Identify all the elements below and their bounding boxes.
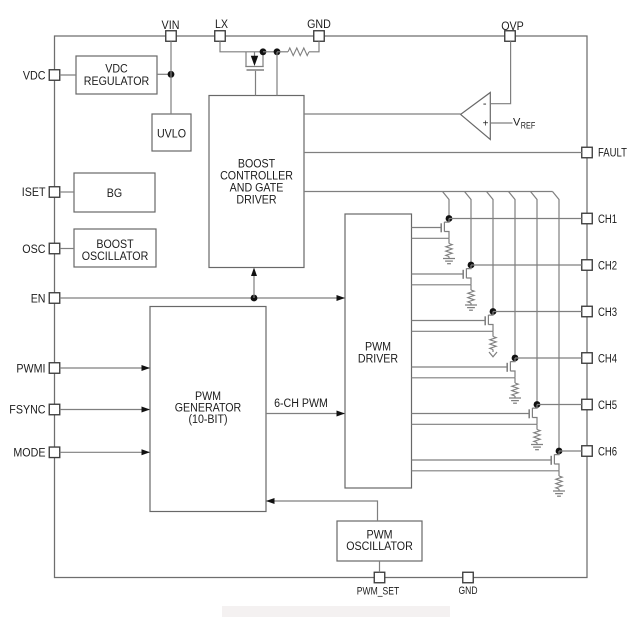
arrowhead EN into PWM driver — [337, 295, 346, 301]
wire OVP pin down to comparator inverting input — [491, 41, 511, 103]
wire source to resistor R6 — [558, 471, 560, 476]
wire source to resistor R2 — [470, 285, 472, 290]
svg-text:EN: EN — [31, 294, 46, 306]
pin EN — [31, 293, 60, 306]
outer chip boundary — [55, 36, 588, 578]
wire gate drive to Q6 — [412, 459, 552, 461]
block PWM OSCILLATOR — [337, 521, 422, 561]
wire EN to PWM driver — [60, 297, 345, 299]
svg-text:REGULATOR: REGULATOR — [84, 74, 149, 88]
ground CH2 — [465, 303, 477, 310]
block UVLO — [152, 114, 191, 151]
pin CH6 — [582, 446, 617, 459]
node CH6 dot — [556, 448, 563, 455]
svg-text:CH2: CH2 — [598, 261, 617, 273]
wire PWMI to PWM generator — [60, 365, 150, 371]
svg-text:VDC: VDC — [23, 71, 46, 83]
svg-text:CH6: CH6 — [598, 447, 617, 459]
svg-text:CH5: CH5 — [598, 400, 617, 412]
node CH5 dot — [534, 401, 541, 408]
wire bus branch to CH2 — [465, 192, 472, 266]
wire bus branch to CH3 — [487, 192, 494, 312]
wire resistor to GND pin — [309, 41, 319, 52]
svg-text:DRIVER: DRIVER — [358, 352, 398, 366]
node CH3 dot — [490, 308, 497, 315]
pin LX — [215, 19, 229, 41]
wire PWM oscillator to PWM generator — [266, 501, 378, 521]
svg-text:CH3: CH3 — [598, 307, 617, 319]
svg-text:LX: LX — [215, 19, 228, 31]
pin CH4 — [582, 353, 618, 366]
wire current sense CH4 to PWM driver — [412, 377, 516, 379]
svg-text:OSCILLATOR: OSCILLATOR — [346, 539, 413, 553]
svg-text:ISET: ISET — [22, 187, 46, 199]
node CH2 dot — [468, 262, 475, 269]
wire gate drive to Q4 — [412, 366, 508, 368]
transistor Q7 boost switch — [245, 52, 264, 96]
transistor Q5 channel switch — [529, 405, 537, 425]
wire VDC pin to VDC REGULATOR — [60, 74, 76, 76]
pin ISET — [22, 187, 60, 199]
node boost switch drain dot — [260, 48, 267, 55]
svg-text:PWM_SET: PWM_SET — [357, 586, 400, 598]
resistor R5 current sense — [534, 430, 540, 443]
svg-text:GND: GND — [459, 585, 478, 597]
wire drain-sense bus — [304, 191, 553, 193]
block BOOST OSCILLATOR — [74, 229, 156, 267]
svg-text:PWMI: PWMI — [16, 364, 45, 376]
node sense junction dot — [274, 48, 281, 55]
ground CH6 — [553, 489, 565, 496]
svg-text:BG: BG — [107, 186, 122, 200]
wire current sense CH3 to PWM driver — [412, 330, 494, 332]
wire 6-CH PWM bus — [266, 411, 345, 417]
wire source to resistor R5 — [536, 424, 538, 429]
pin CH1 — [582, 213, 617, 226]
svg-text:FAULT: FAULT — [598, 148, 627, 160]
pin MODE — [13, 447, 59, 460]
wire ISET pin to BG — [60, 191, 74, 193]
svg-text:VIN: VIN — [162, 20, 180, 32]
block BOOST CONTROLLER AND GATE DRIVER — [209, 96, 304, 268]
transistor Q2 channel switch — [463, 265, 471, 285]
block VDC REGULATOR — [76, 56, 157, 94]
wire CH4 node to pin — [515, 357, 582, 359]
wire VDC REGULATOR output to VIN line — [157, 73, 171, 75]
transistor Q6 channel switch — [551, 451, 559, 471]
svg-text:CH1: CH1 — [598, 214, 617, 226]
svg-text:(10-BIT): (10-BIT) — [189, 412, 228, 426]
wire comparator non-inverting input to VREF — [491, 122, 513, 124]
op-amp U1 OVP comparator — [461, 93, 491, 140]
ground CH5 — [531, 443, 543, 450]
wire bus branch to CH6 — [553, 192, 560, 452]
wire CH6 node to pin — [559, 450, 582, 452]
pin VIN — [162, 20, 180, 41]
arrowhead into PWM generator — [266, 498, 275, 504]
resistor R6 current sense — [556, 476, 562, 489]
pin PWMI — [16, 363, 59, 376]
wire sense node down to controller — [276, 52, 278, 96]
svg-text:V: V — [513, 117, 521, 129]
label VREF — [513, 117, 536, 131]
svg-text:DRIVER: DRIVER — [236, 193, 276, 207]
wire gate drive to Q1 — [412, 227, 442, 229]
pin OVP — [501, 21, 524, 41]
wire current sense CH5 to PWM driver — [412, 423, 538, 425]
wire current sense CH6 to PWM driver — [412, 470, 560, 472]
pin CH2 — [582, 260, 617, 273]
resistor R4 current sense — [512, 383, 518, 396]
wire gate drive to Q5 — [412, 413, 530, 415]
block BG — [74, 173, 155, 212]
wire gate drive to Q3 — [412, 320, 486, 322]
wire CH2 node to pin — [471, 264, 582, 266]
wire boost controller to FAULT pin — [304, 152, 582, 154]
pin VDC — [23, 70, 60, 83]
block PWM DRIVER — [345, 214, 412, 488]
wire comparator output to boost controller — [304, 113, 461, 115]
node CH1 dot — [446, 215, 453, 222]
wire CH3 node to pin — [493, 311, 582, 313]
wire FSYNC to PWM generator — [60, 407, 150, 413]
pin OSC — [22, 243, 59, 256]
ground (arrow style) CH3 — [489, 350, 497, 357]
wire source to resistor R1 — [448, 238, 450, 243]
label 6-CH PWM — [274, 396, 328, 410]
wire to snubber resistor — [277, 51, 288, 53]
wire LX pin down and to switch — [220, 41, 263, 52]
pin GND (bottom) — [459, 572, 478, 597]
pin GND (top) — [307, 19, 331, 41]
wire CH1 node to pin — [449, 218, 582, 220]
wire source to resistor R3 — [492, 331, 494, 336]
svg-text:-: - — [483, 98, 487, 110]
node VIN junction dot — [168, 71, 175, 78]
wire OSC pin to BOOST OSCILLATOR — [60, 248, 74, 250]
pin PWM_SET — [357, 572, 400, 597]
pin CH5 — [582, 399, 617, 412]
svg-text:UVLO: UVLO — [157, 127, 186, 141]
svg-text:CH4: CH4 — [598, 354, 618, 366]
wire bus branch to CH1 — [443, 192, 450, 219]
ground CH1 — [443, 257, 455, 264]
ground CH4 — [509, 396, 521, 403]
wire MODE to PWM generator — [60, 449, 150, 455]
wire bus branch to CH4 — [509, 192, 516, 359]
wire gate drive to Q2 — [412, 273, 464, 275]
resistor R7 snubber — [288, 48, 309, 56]
wire source to resistor R4 — [514, 378, 516, 383]
resistor R1 current sense — [446, 244, 452, 257]
node EN junction dot — [251, 295, 258, 302]
pin FSYNC — [9, 404, 59, 416]
svg-text:6-CH PWM: 6-CH PWM — [274, 396, 328, 410]
wire VIN down to UVLO — [170, 41, 172, 114]
svg-text:OSCILLATOR: OSCILLATOR — [82, 249, 149, 263]
arrowhead EN into boost controller — [251, 268, 257, 277]
transistor Q1 channel switch — [441, 219, 449, 239]
transistor Q4 channel switch — [507, 358, 515, 378]
svg-text:+: + — [483, 118, 489, 129]
svg-text:GND: GND — [307, 19, 331, 31]
svg-text:FSYNC: FSYNC — [9, 405, 45, 417]
svg-text:MODE: MODE — [13, 448, 45, 460]
wire bus branch to CH5 — [531, 192, 538, 405]
wire drain node to sense node — [263, 51, 277, 53]
svg-text:REF: REF — [521, 120, 536, 130]
transistor Q3 channel switch — [485, 312, 493, 332]
wire PWM oscillator to PWM_SET pin — [379, 561, 381, 572]
wire current sense CH2 to PWM driver — [412, 284, 472, 286]
svg-text:OVP: OVP — [501, 21, 524, 33]
node CH4 dot — [512, 355, 519, 362]
svg-text:OSC: OSC — [22, 244, 45, 256]
pin FAULT — [582, 147, 627, 159]
resistor R3 current sense — [490, 337, 496, 350]
wire CH5 node to pin — [537, 404, 582, 406]
wire current sense CH1 to PWM driver — [412, 237, 450, 239]
resistor R2 current sense — [468, 290, 474, 303]
faint bottom band — [222, 606, 450, 617]
wire EN branch up to boost controller — [253, 275, 255, 298]
block PWM GENERATOR (10-BIT) — [150, 307, 266, 512]
pin CH3 — [582, 306, 617, 319]
